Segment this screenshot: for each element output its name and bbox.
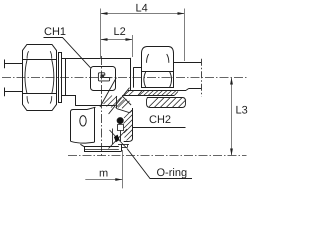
O-ring label <box>127 149 192 180</box>
O-ring upper seal dot <box>117 118 123 124</box>
right compression ring and tube between body and nut <box>131 58 142 90</box>
line under right-run wall band <box>122 95 174 97</box>
hatching: wall band under right run <box>124 90 176 95</box>
washer profile below seal <box>118 125 124 131</box>
branch locknut right half in section <box>117 96 133 141</box>
CH2 label <box>132 114 185 128</box>
bottom horizontal centerline <box>68 155 247 157</box>
L2 dimension <box>101 35 133 57</box>
washer under locknut <box>80 144 127 151</box>
O-ring (filled, in section) <box>114 135 120 143</box>
m dimension <box>85 150 122 188</box>
branch neck <box>76 96 115 106</box>
bore line revealed by cutaway <box>128 90 186 92</box>
right cap of nut wall band <box>174 92 178 96</box>
L4 dimension <box>101 9 185 62</box>
branch vertical centerline <box>101 56 103 157</box>
body break line (section boundary 2) <box>109 88 130 114</box>
sectioned washer X-hatch region <box>109 129 130 149</box>
svg-text:L2: L2 <box>114 26 126 38</box>
body barrel <box>62 59 131 96</box>
body break line (section boundary 1) <box>100 78 116 108</box>
CH1 label <box>44 26 91 68</box>
tube end mark <box>201 59 203 97</box>
svg-text:L3: L3 <box>236 105 248 117</box>
right hex nut <box>142 47 174 88</box>
svg-text:m: m <box>99 168 108 180</box>
main horizontal centerline <box>2 77 247 79</box>
L3 dimension <box>231 78 233 156</box>
branch locknut CH2 (left, outside view) <box>71 107 96 143</box>
svg-text:CH1: CH1 <box>44 26 66 38</box>
stud end <box>84 144 122 151</box>
left compression ring (washer) <box>59 53 66 103</box>
left cap of nut wall band <box>138 90 143 95</box>
section symbol inside window <box>98 73 111 81</box>
right tube stub <box>173 63 201 89</box>
tube bottom step at cutaway end <box>186 89 189 91</box>
left hex nut <box>22 45 56 111</box>
svg-text:O-ring: O-ring <box>157 167 188 179</box>
left tube stub <box>4 60 22 97</box>
sectioned right nut wall (lower rounded band) <box>147 98 187 108</box>
CH1 wrench-flat window on body <box>91 67 116 91</box>
svg-text:L4: L4 <box>136 3 148 15</box>
hatching: body wall around branch <box>104 96 125 109</box>
svg-text:CH2: CH2 <box>149 114 171 126</box>
